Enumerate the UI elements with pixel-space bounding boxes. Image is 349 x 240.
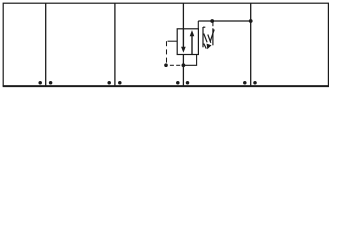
enclosure boundary (assembly frame) [3,3,328,86]
junction dot at section line 4 [249,19,253,23]
port dots pair at supply line [176,81,189,85]
junction dot at spring pilot tap [210,19,214,23]
wire: supply line upper segment (to valve inlet) [182,3,184,29]
wire: top connecting line to section line 4 [198,20,250,22]
port dots pair at section line 1 [38,81,52,85]
adjustment arrow through spring [207,30,215,50]
port dots pair at section line 4 [243,81,257,85]
wire: drain from valve bottom-right port [183,54,196,65]
flow path arrow down (inside valve) [181,29,186,53]
pilot line (dashed) horizontal run to junction [170,64,180,66]
wire: section line 4 [250,3,252,86]
junction dot on supply line at drain tie-in [182,63,186,67]
node: pilot line corner dot [164,63,168,67]
pilot line (dashed) from valve left port [167,41,178,62]
wire: valve top-right port riser [197,21,199,29]
port dots pair at section line 2 [107,81,121,85]
flow path arrow up (inside valve) [190,30,195,54]
wire: supply line lower segment (valve outlet to bus) [182,54,184,86]
spring (adjustable) of valve CV1 [203,27,213,49]
valve CV1 envelope (pressure relief valve body) [177,29,198,55]
tank bus line (thick bottom line) [3,85,329,87]
pilot line (dashed) to spring chamber [212,22,214,26]
wire: section line 2 [114,3,116,86]
wire: section line 1 [45,3,47,86]
